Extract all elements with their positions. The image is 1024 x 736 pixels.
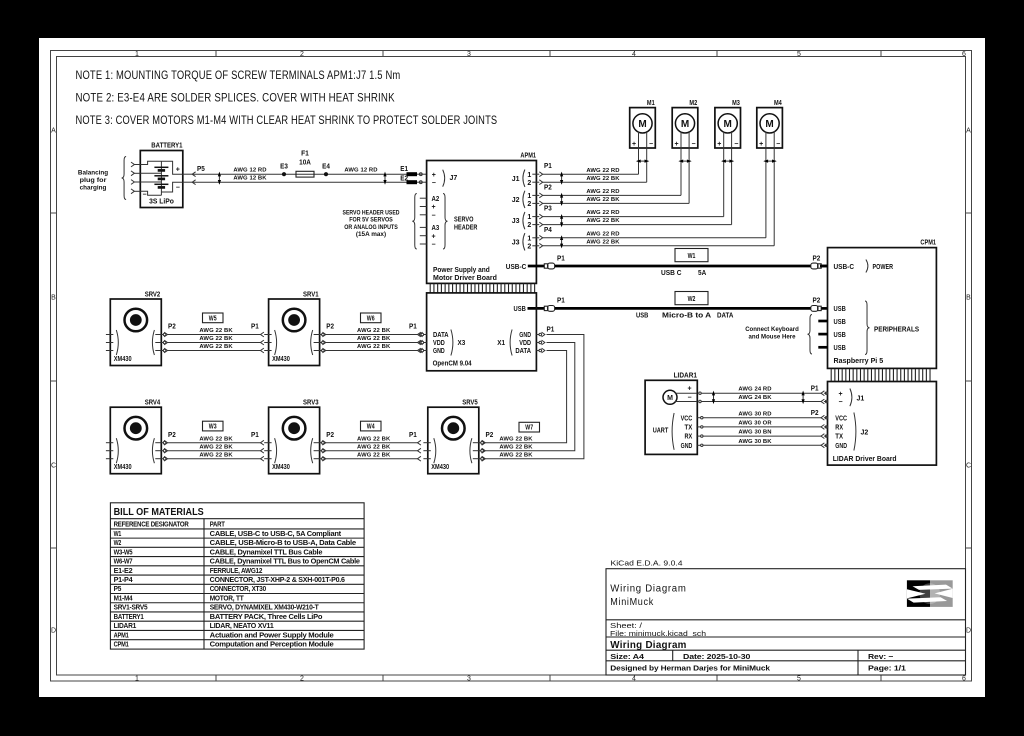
cable W2 plug P1 [544,296,565,312]
motor cable wires P4 (AWG 22) [543,231,775,245]
svg-text:+: + [687,385,691,392]
svg-text:P2: P2 [486,430,494,439]
cable label W6 [361,313,382,323]
svg-text:AWG 22 BK: AWG 22 BK [357,328,391,334]
svg-text:CONNECTOR, JST-XHP-2 & SXH-001: CONNECTOR, JST-XHP-2 & SXH-001T-P0.6 [210,577,345,584]
svg-text:GND: GND [433,348,445,355]
svg-text:1: 1 [527,172,531,179]
svg-text:M3: M3 [732,98,740,107]
svg-text:AWG 22 RD: AWG 22 RD [586,168,619,174]
svg-text:OR ANALOG INPUTS: OR ANALOG INPUTS [344,224,398,231]
svg-text:NOTE 1: MOUNTING TORQUE OF SCR: NOTE 1: MOUNTING TORQUE OF SCREW TERMINA… [76,69,401,82]
svg-text:SRV5: SRV5 [462,398,478,407]
svg-text:Motor Driver Board: Motor Driver Board [433,273,497,282]
svg-text:M: M [765,119,773,130]
svg-text:C: C [51,463,56,470]
svg-text:TX: TX [685,425,693,432]
svg-text:AWG 22 BK: AWG 22 BK [499,444,533,450]
svg-text:+: + [717,141,721,148]
svg-text:P1: P1 [547,325,555,334]
svg-text:FERRULE, AWG12: FERRULE, AWG12 [210,568,263,575]
svg-text:charging: charging [80,184,107,191]
svg-text:AWG 22 BK: AWG 22 BK [586,197,620,203]
svg-text:DATA: DATA [433,332,449,339]
svg-text:P2: P2 [813,253,821,262]
battery balance plug annotation [78,157,126,200]
svg-text:A: A [966,128,971,135]
cable label W3 [203,421,224,431]
svg-text:1: 1 [527,193,531,200]
svg-text:−: − [839,399,843,406]
twisted pair marker [764,160,775,162]
svg-text:GND: GND [681,443,693,450]
svg-text:M: M [724,119,732,130]
OpenCM connector X3 pins [419,330,465,356]
svg-text:3: 3 [467,675,471,682]
cable W7 label [519,422,540,432]
module CPM1 Raspberry Pi 5 [828,238,937,369]
servo SRV1 (XM430) [264,290,326,366]
svg-text:D: D [966,628,971,635]
twisted pair marker [561,215,563,226]
lidar LIDAR1 (NEATO XV11) [645,370,703,454]
svg-text:W3: W3 [209,422,217,431]
svg-text:W1: W1 [688,251,696,260]
svg-text:CONNECTOR, XT30: CONNECTOR, XT30 [210,586,267,593]
svg-text:6: 6 [962,51,966,58]
pin header APM1-OpenCM [430,284,534,293]
svg-text:A3: A3 [432,225,440,232]
svg-text:J7: J7 [450,175,458,182]
svg-text:Wiring Diagram: Wiring Diagram [610,640,686,651]
cable W1 wire USB C 5A [555,266,811,277]
svg-text:B: B [966,295,971,302]
svg-text:2: 2 [527,243,531,250]
svg-text:USB C: USB C [661,268,682,277]
svg-text:M1-M4: M1-M4 [114,595,133,602]
lidar UART wires (AWG 30) [703,411,821,445]
svg-text:AWG 12 RD: AWG 12 RD [344,168,377,174]
motor M1 lead wires [639,131,647,182]
cable W5 wires [168,328,264,353]
svg-text:1: 1 [135,675,139,682]
svg-text:Connect Keyboard: Connect Keyboard [745,326,799,333]
svg-text:+: + [432,172,436,179]
servo SRV3 (XM430) [264,398,326,474]
servo header annotation [343,194,417,250]
svg-text:W2: W2 [688,294,696,303]
svg-text:−: − [432,212,436,219]
svg-text:Computation and Perception Mod: Computation and Perception Module [210,642,334,649]
svg-text:and Mouse Here: and Mouse Here [749,334,796,341]
svg-text:SRV1-SRV5: SRV1-SRV5 [114,605,148,612]
svg-text:CABLE, Dynamixel TTL Bus Cable: CABLE, Dynamixel TTL Bus Cable [210,549,323,556]
svg-text:AWG 22 BK: AWG 22 BK [199,344,233,350]
svg-text:LIDAR1: LIDAR1 [114,623,137,630]
svg-text:W1: W1 [114,531,122,538]
svg-text:C: C [966,463,971,470]
svg-text:+: + [432,204,436,211]
svg-text:AWG 22 BK: AWG 22 BK [199,328,233,334]
svg-text:X3: X3 [458,340,466,347]
svg-text:SRV4: SRV4 [145,398,161,407]
svg-text:SERVO HEADER USED: SERVO HEADER USED [343,210,400,217]
svg-text:PERIPHERALS: PERIPHERALS [874,324,919,333]
svg-text:−: − [687,394,691,401]
motor M3 lead wires [724,131,732,225]
splice E4 [322,161,331,176]
svg-text:P2: P2 [326,430,334,439]
connector P5 [183,164,205,184]
svg-text:USB: USB [514,304,527,313]
svg-text:OpenCM 9.04: OpenCM 9.04 [433,359,472,368]
svg-text:+: + [632,141,636,148]
svg-text:AWG 30 BN: AWG 30 BN [738,430,771,436]
cable W2 label [675,292,708,305]
cable W1 label [675,249,708,262]
svg-text:TX: TX [835,434,843,441]
svg-text:CABLE, Dynamixel TTL Bus to Op: CABLE, Dynamixel TTL Bus to OpenCM Cable [210,559,360,566]
svg-text:3S LiPo: 3S LiPo [149,196,174,205]
twisted pair marker [561,173,563,184]
svg-text:DATA: DATA [515,348,531,355]
servo SRV4 (XM430) [106,398,168,474]
svg-text:M1: M1 [647,98,655,107]
CPM1 USB peripheral pins [818,301,919,355]
motor M1 [630,98,656,148]
svg-text:M4: M4 [774,98,782,107]
cable W4 wires [326,436,421,461]
svg-text:A: A [51,128,56,135]
svg-text:AWG 22 BK: AWG 22 BK [586,239,620,245]
svg-text:CPM1: CPM1 [920,238,936,247]
pin header CPM1-LIDAR driver [831,369,930,381]
motor M4 lead wires [766,131,774,246]
svg-text:W6-W7: W6-W7 [114,559,133,566]
svg-text:P1: P1 [251,430,259,439]
CPM1 USB-C power pin [820,265,828,268]
svg-text:NOTE 3: COVER MOTORS M1-M4 WIT: NOTE 3: COVER MOTORS M1-M4 WITH CLEAR HE… [76,114,498,127]
svg-text:BATTERY PACK, Three Cells LiPo: BATTERY PACK, Three Cells LiPo [210,614,323,621]
svg-text:VCC: VCC [835,415,847,422]
svg-text:W6: W6 [367,313,375,322]
svg-text:Designed by Herman Darjes for: Designed by Herman Darjes for MiniMuck [610,663,771,672]
svg-text:AWG 30 BK: AWG 30 BK [738,439,772,445]
svg-text:−: − [649,141,653,148]
svg-text:P1: P1 [811,384,819,393]
svg-text:POWER: POWER [873,262,894,271]
twisted pair marker [561,194,563,205]
svg-text:FOR 5V SERVOS: FOR 5V SERVOS [349,217,393,224]
svg-text:1: 1 [135,51,139,58]
svg-text:SERVO: SERVO [454,217,474,224]
cable W3 wires [168,436,264,461]
svg-text:P2: P2 [326,322,334,331]
svg-text:P5: P5 [114,586,122,593]
svg-text:(15A max): (15A max) [356,231,386,238]
svg-text:E1-E2: E1-E2 [114,568,133,575]
svg-text:2: 2 [527,201,531,208]
battery balance pins [131,162,140,194]
servo SRV5 (XM430) [423,398,485,474]
svg-text:E1: E1 [400,164,408,173]
svg-text:P1: P1 [544,161,552,170]
svg-text:SERVO, DYNAMIXEL XM430-W210-T: SERVO, DYNAMIXEL XM430-W210-T [210,605,320,612]
module LIDAR Driver Board [828,382,937,466]
svg-text:USB: USB [834,330,847,339]
svg-text:MOTOR, TT: MOTOR, TT [210,595,245,602]
svg-text:W4: W4 [367,422,375,431]
svg-text:CABLE, USB-C to USB-C, 5A Comp: CABLE, USB-C to USB-C, 5A Compliant [210,531,342,538]
svg-text:AWG 22 BK: AWG 22 BK [357,436,391,442]
power wire + (AWG 12 RD) [192,168,406,175]
svg-text:AWG 22 BK: AWG 22 BK [357,452,391,458]
svg-text:2: 2 [527,180,531,187]
svg-text:BILL OF MATERIALS: BILL OF MATERIALS [114,507,205,518]
svg-text:APM1: APM1 [114,632,129,639]
twisted pair marker [680,160,691,162]
svg-text:APM1: APM1 [520,151,536,160]
svg-text:−: − [432,242,436,249]
svg-text:4: 4 [632,51,636,58]
bill of materials table [110,503,364,649]
svg-text:AWG 22 BK: AWG 22 BK [199,436,233,442]
svg-text:USB-C: USB-C [834,262,855,271]
svg-text:KiCad E.D.A. 9.0.4: KiCad E.D.A. 9.0.4 [611,559,683,568]
OpenCM USB port pin [514,304,545,313]
svg-text:CPM1: CPM1 [114,642,129,649]
svg-text:AWG 22 BK: AWG 22 BK [199,444,233,450]
svg-text:−: − [432,180,436,187]
svg-text:VCC: VCC [681,415,693,422]
svg-text:P2: P2 [811,408,819,417]
svg-text:AWG 22 BK: AWG 22 BK [499,452,533,458]
svg-text:P5: P5 [197,164,205,173]
svg-text:plug for: plug for [80,177,107,184]
svg-text:AWG 22 BK: AWG 22 BK [357,336,391,342]
module OpenCM 9.04 [427,293,537,371]
svg-text:AWG 22 BK: AWG 22 BK [586,176,620,182]
svg-text:5A: 5A [698,268,707,277]
svg-text:USB: USB [834,304,847,313]
svg-text:RX: RX [835,425,843,432]
svg-text:AWG 22 BK: AWG 22 BK [586,218,620,224]
svg-text:HEADER: HEADER [454,224,477,231]
svg-text:J2: J2 [512,197,520,204]
svg-text:10A: 10A [299,158,311,167]
svg-text:W3-W5: W3-W5 [114,549,133,556]
APM1 connector P2 pins (J2) [512,182,552,208]
motor cable wires P2 (AWG 22) [543,189,689,203]
svg-text:M2: M2 [689,98,697,107]
svg-text:1: 1 [527,214,531,221]
svg-text:3: 3 [467,51,471,58]
APM1 J7 input pins [417,173,427,184]
svg-text:SRV3: SRV3 [303,398,319,407]
cable W1 plug P1 [544,253,565,269]
svg-text:−: − [176,184,180,191]
svg-text:XM430: XM430 [431,462,449,471]
motor M2 lead wires [681,131,689,203]
svg-text:XM430: XM430 [272,462,290,471]
svg-text:P1: P1 [409,430,417,439]
APM1 connector P1 pins (J1) [512,161,552,187]
svg-text:E2: E2 [400,174,408,183]
svg-text:AWG 22 RD: AWG 22 RD [586,210,619,216]
svg-text:2: 2 [527,222,531,229]
svg-text:AWG 24 RD: AWG 24 RD [738,387,771,393]
svg-text:M: M [667,395,673,402]
svg-text:MiniMuck: MiniMuck [610,597,654,608]
svg-text:B: B [51,295,56,302]
module APM1 Power Supply and Motor Driver Board [427,151,537,284]
cable label W5 [203,313,224,323]
svg-text:Page: 1/1: Page: 1/1 [868,663,906,672]
svg-text:RX: RX [685,434,693,441]
MiniMuck logo [907,580,953,607]
svg-text:LIDAR Driver Board: LIDAR Driver Board [833,454,897,463]
twisted pair markers [218,173,220,184]
svg-text:AWG 12 RD: AWG 12 RD [233,168,266,174]
connect keyboard annotation [745,315,812,355]
svg-text:J1: J1 [512,176,520,183]
svg-text:VDD: VDD [519,340,531,347]
cable W1 plug P2 [811,253,828,269]
motor M3 [715,98,741,148]
svg-text:W7: W7 [525,423,533,432]
title block [606,569,966,675]
OpenCM connector X1 pins [497,325,554,356]
svg-text:+: + [432,233,436,240]
lidar motor wires (AWG 24) [701,387,821,402]
motor cable wires P3 (AWG 22) [543,210,732,224]
svg-text:Wiring Diagram: Wiring Diagram [610,584,686,595]
svg-text:A2: A2 [432,196,440,203]
svg-text:+: + [759,141,763,148]
svg-text:AWG 22 RD: AWG 22 RD [586,231,619,237]
svg-text:GND: GND [519,332,531,339]
svg-text:LIDAR1: LIDAR1 [674,370,697,379]
cable W7 wires (OpenCM X1 to SRV5) [482,335,584,462]
APM1 USB-C port pin [506,262,545,271]
svg-text:Raspberry Pi 5: Raspberry Pi 5 [834,356,884,365]
svg-text:File: minimuck.kicad_sch: File: minimuck.kicad_sch [610,629,706,638]
svg-text:AWG 22 RD: AWG 22 RD [586,189,619,195]
svg-text:E4: E4 [322,161,331,170]
svg-text:2: 2 [300,675,304,682]
svg-text:X1: X1 [497,340,505,347]
svg-text:P1: P1 [557,253,565,262]
svg-text:AWG 22 BK: AWG 22 BK [199,452,233,458]
svg-text:USB: USB [636,310,649,319]
svg-text:+: + [675,141,679,148]
svg-text:−: − [692,141,696,148]
svg-text:Rev: −: Rev: − [868,652,893,661]
svg-text:F1: F1 [301,149,309,158]
ferrule E1 [400,164,417,176]
svg-text:J1: J1 [857,395,865,402]
svg-text:SRV1: SRV1 [303,290,319,299]
svg-text:P1: P1 [251,322,259,331]
svg-text:4: 4 [632,675,636,682]
svg-text:P2: P2 [168,322,176,331]
svg-text:DATA: DATA [717,310,734,319]
svg-text:REFERENCE DESIGNATOR: REFERENCE DESIGNATOR [114,522,189,529]
splice E3 [280,161,288,176]
svg-text:NOTE 2: E3-E4 ARE SOLDER SPLIC: NOTE 2: E3-E4 ARE SOLDER SPLICES. COVER … [76,92,395,105]
cable W2 wire USB Micro-B to A [555,308,811,319]
svg-text:P1: P1 [409,322,417,331]
svg-text:PART: PART [210,522,226,529]
svg-text:AWG 22 BK: AWG 22 BK [357,444,391,450]
svg-text:XM430: XM430 [114,462,132,471]
svg-text:P2: P2 [168,430,176,439]
svg-text:USB: USB [834,317,847,326]
motor M2 [672,98,698,148]
motor cable wires P1 (AWG 22) [543,168,647,182]
svg-text:−: − [776,141,780,148]
fuse F1 10A [296,149,314,178]
svg-text:E3: E3 [280,161,288,170]
svg-text:P2: P2 [544,182,552,191]
svg-text:P2: P2 [813,296,821,305]
ferrule E2 [400,174,417,185]
svg-text:Micro-B to A: Micro-B to A [662,310,712,319]
svg-text:+: + [176,167,180,174]
svg-text:Actuation and Power Supply Mod: Actuation and Power Supply Module [210,632,334,639]
svg-text:P4: P4 [544,225,553,234]
svg-text:XM430: XM430 [114,354,132,363]
svg-text:AWG 22 BK: AWG 22 BK [357,344,391,350]
svg-text:M: M [681,119,689,130]
svg-text:AWG 30 OR: AWG 30 OR [738,421,772,427]
svg-text:USB-C: USB-C [506,262,527,271]
svg-text:J3: J3 [512,239,520,246]
svg-text:USB: USB [834,343,847,352]
twisted pair marker [561,236,563,247]
cable label W4 [361,421,382,431]
cable W2 plug P2 [811,296,828,312]
svg-text:2: 2 [300,51,304,58]
svg-text:6: 6 [962,675,966,682]
svg-text:Balancing: Balancing [78,170,108,177]
APM1 connector P3 pins (J3) [512,204,552,230]
svg-text:1: 1 [527,235,531,242]
svg-text:GND: GND [835,443,847,450]
svg-text:5: 5 [797,51,801,58]
motor M4 [757,98,783,148]
svg-text:XM430: XM430 [272,354,290,363]
svg-text:−: − [734,141,738,148]
power wire - (AWG 12 BK) [192,176,406,183]
svg-text:J3: J3 [512,218,520,225]
battery BATTERY1 (3S LiPo) [140,141,183,208]
svg-text:AWG 30 RD: AWG 30 RD [738,411,771,417]
svg-text:AWG 22 BK: AWG 22 BK [499,436,533,442]
cable W6 wires [326,328,421,353]
svg-text:AWG 22 BK: AWG 22 BK [199,336,233,342]
LIDAR driver connector J1 pins [811,384,865,407]
APM1 connector P4 pins (J3) [512,225,553,251]
twisted pair markers [713,392,715,403]
svg-text:BATTERY1: BATTERY1 [114,614,144,621]
twisted pair marker [722,160,733,162]
svg-text:UART: UART [653,427,669,434]
svg-text:J2: J2 [861,430,869,437]
svg-text:LIDAR, NEATO XV11: LIDAR, NEATO XV11 [210,623,274,630]
svg-text:SRV2: SRV2 [145,290,161,299]
svg-text:AWG 24 BK: AWG 24 BK [738,395,772,401]
